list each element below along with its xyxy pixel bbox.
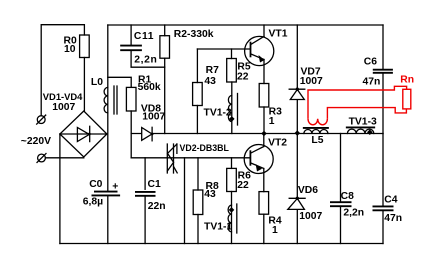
svg-text:47n: 47n — [384, 213, 402, 224]
svg-text:R7: R7 — [206, 65, 219, 76]
svg-text:L5: L5 — [311, 135, 323, 146]
svg-text:TV1-1: TV1-1 — [204, 222, 232, 233]
svg-text:22: 22 — [237, 180, 249, 191]
svg-text:1: 1 — [272, 225, 278, 236]
svg-text:22n: 22n — [148, 201, 166, 212]
svg-text:10: 10 — [64, 44, 76, 55]
svg-text:Rn: Rn — [400, 75, 414, 86]
svg-text:1007: 1007 — [52, 102, 75, 113]
svg-text:1: 1 — [269, 116, 275, 127]
svg-text:6,8µ: 6,8µ — [83, 196, 103, 207]
svg-text:TV1-2: TV1-2 — [204, 107, 232, 118]
svg-text:C1: C1 — [148, 179, 161, 190]
svg-text:C4: C4 — [384, 195, 397, 206]
svg-text:22: 22 — [237, 72, 249, 83]
svg-text:560k: 560k — [138, 82, 161, 93]
svg-text:C11: C11 — [134, 31, 154, 42]
svg-text:~220V: ~220V — [21, 136, 51, 147]
svg-text:+: + — [112, 181, 118, 192]
svg-text:1007: 1007 — [142, 112, 165, 123]
svg-text:VD1-VD4: VD1-VD4 — [43, 91, 83, 102]
svg-text:R2-330k: R2-330k — [174, 29, 214, 40]
svg-text:1007: 1007 — [300, 76, 323, 87]
svg-text:VT2: VT2 — [268, 137, 287, 148]
svg-text:43: 43 — [204, 189, 216, 200]
svg-text:L0: L0 — [91, 77, 103, 88]
svg-text:47n: 47n — [363, 77, 381, 88]
svg-text:1007: 1007 — [299, 211, 322, 222]
svg-text:43: 43 — [204, 76, 216, 87]
svg-text:2,2n: 2,2n — [134, 54, 157, 65]
svg-text:C0: C0 — [89, 179, 102, 190]
svg-text:TV1-3: TV1-3 — [349, 116, 377, 127]
svg-text:C6: C6 — [364, 57, 377, 68]
svg-text:C8: C8 — [341, 191, 354, 202]
svg-text:VD6: VD6 — [298, 185, 318, 196]
svg-text:VD2-DB3BL: VD2-DB3BL — [180, 143, 230, 153]
svg-text:VT1: VT1 — [269, 28, 288, 39]
svg-text:2,2n: 2,2n — [343, 207, 364, 218]
